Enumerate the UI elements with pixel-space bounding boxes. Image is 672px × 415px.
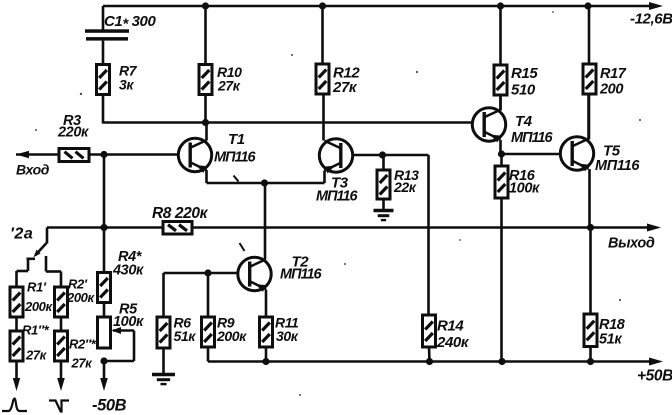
resistor R3 <box>59 149 89 162</box>
label -12,6В <box>630 11 672 28</box>
wire: rail to C1 <box>102 6 105 30</box>
node: rail / R11 junction <box>262 358 269 365</box>
svg-text:51к: 51к <box>599 332 622 348</box>
wire R2p to R2s <box>60 317 63 331</box>
label R15 510 <box>511 65 538 99</box>
node: rail / R14 junction <box>426 358 433 365</box>
wire: R12 to T3 collector (crossover) <box>322 94 325 141</box>
node: T2 base / R9 junction <box>204 269 211 276</box>
resistor R12 <box>316 64 329 94</box>
wire: rail to R15 <box>499 6 502 65</box>
label T1 МП116 <box>214 131 257 166</box>
svg-text:МП116: МП116 <box>214 150 257 166</box>
resistor R9 <box>202 273 215 362</box>
svg-text:3к: 3к <box>119 77 134 93</box>
wire: bus node down to R4 <box>103 228 106 273</box>
arrow below R2s <box>57 361 65 391</box>
svg-text:′2а: ′2а <box>10 226 33 243</box>
potentiometer R5 <box>98 317 111 348</box>
svg-text:51к: 51к <box>174 328 197 344</box>
svg-text:200к: 200к <box>24 299 53 314</box>
label R14 240к <box>436 318 470 352</box>
resistor R2s <box>55 331 68 361</box>
label R9 200к <box>216 315 247 345</box>
label R18 51к <box>599 317 626 348</box>
transistor T2 <box>238 257 271 292</box>
svg-text:Т1: Т1 <box>228 131 245 148</box>
node: T3 base / R13 junction <box>379 151 386 158</box>
wire: rail to R17 <box>588 6 591 64</box>
wire: T4 emitter to T5 base <box>502 153 560 156</box>
switch contact R2 <box>46 256 61 287</box>
ground below R6 <box>152 375 175 385</box>
resistor R8 <box>163 222 192 235</box>
label T2 МП116 <box>280 254 323 283</box>
label -50В <box>92 397 127 415</box>
svg-text:27к: 27к <box>25 348 48 363</box>
wire: R17 to T5 collector <box>588 94 591 140</box>
svg-text:-12,6В: -12,6В <box>630 11 672 28</box>
svg-text:200к: 200к <box>66 290 95 305</box>
wire: R10 to junction <box>204 95 207 123</box>
node: bus / T5 emitter junction (output) <box>587 224 594 231</box>
node: emitters / T2 collector junction <box>261 179 268 186</box>
wire: T4 emitter down <box>499 140 502 154</box>
svg-text:R14: R14 <box>437 318 464 335</box>
label R1prime 200к <box>24 280 53 315</box>
label R1sec 27к <box>22 323 50 363</box>
wire: T1 collector up <box>205 123 208 141</box>
resistor R6 <box>157 317 170 374</box>
capacitor C1 <box>85 29 129 40</box>
transistor T1 <box>178 138 211 173</box>
transistor T4 <box>472 108 505 143</box>
svg-text:МП116: МП116 <box>280 267 323 283</box>
resistor R13 <box>377 155 390 210</box>
resistor R15 <box>494 65 507 95</box>
label 2a <box>10 226 33 243</box>
svg-text:R8 220к: R8 220к <box>152 205 209 222</box>
wire: R16 down through bus to +50V rail <box>500 198 503 362</box>
svg-text:430к: 430к <box>112 263 144 279</box>
svg-text:27к: 27к <box>71 356 94 371</box>
label R11 30к <box>275 315 299 345</box>
svg-text:R1′: R1′ <box>27 280 47 295</box>
resistor R4 <box>98 273 111 303</box>
label R5 100к <box>113 302 144 331</box>
node: R10 / T1 collector junction <box>202 119 209 126</box>
sawtooth waveform symbol <box>2 399 27 412</box>
wire: bus corner down to switch <box>46 228 49 244</box>
label R2prime 200к <box>66 277 95 306</box>
transistor T5 <box>560 137 593 172</box>
wire: C1 to R7 <box>102 41 105 65</box>
resistor R7 <box>97 65 110 95</box>
svg-text:Т5: Т5 <box>603 143 621 160</box>
wire: R3 node down to bus node <box>103 155 106 228</box>
stray tick near T1 <box>234 176 239 182</box>
svg-text:27к: 27к <box>332 79 358 96</box>
label R16 100к <box>509 168 540 197</box>
svg-text:+50В: +50В <box>637 368 672 385</box>
svg-text:200к: 200к <box>216 328 247 344</box>
pulse waveform symbol <box>49 401 69 412</box>
feedback / output bus wire (R8 line to Выход) <box>47 224 661 232</box>
transistor T3 (mirrored) <box>319 139 352 174</box>
label T4 МП116 <box>511 113 554 146</box>
svg-text:200: 200 <box>599 82 623 98</box>
svg-text:Т4: Т4 <box>515 113 533 130</box>
top supply rail -12.6V <box>103 2 663 10</box>
resistor R16 <box>495 154 508 198</box>
node: top rail / R12 junction <box>319 2 326 9</box>
resistor R11 <box>260 317 273 362</box>
resistor R1p <box>10 287 23 317</box>
svg-text:С1* 300: С1* 300 <box>104 13 156 33</box>
resistor R14 <box>423 315 436 362</box>
svg-text:27к: 27к <box>217 78 241 94</box>
wire: input line to T1 base <box>16 151 178 158</box>
R5 wiper arm <box>104 327 134 361</box>
svg-text:МП116: МП116 <box>595 158 640 174</box>
node: rail / R16 junction <box>498 358 505 365</box>
svg-text:240к: 240к <box>436 334 470 351</box>
wire: node down through bus to R14 <box>427 155 430 315</box>
arrow to -50V <box>100 361 108 391</box>
svg-text:МП116: МП116 <box>511 130 554 146</box>
svg-text:100к: 100к <box>509 181 540 197</box>
wire: T5 collector up <box>587 94 590 139</box>
svg-text:30к: 30к <box>276 328 299 344</box>
wire: T4 collector up <box>499 95 502 111</box>
label R4* 430к <box>112 249 144 279</box>
wire: R7 to collector line <box>102 95 105 124</box>
wire: T2 emitter down <box>265 290 268 318</box>
node: top rail / R15 junction <box>497 2 504 9</box>
svg-text:Выход: Выход <box>608 236 655 252</box>
bottom supply rail +50V <box>208 358 663 366</box>
resistor R10 <box>199 65 212 95</box>
label R3 220к <box>57 113 89 141</box>
arrow below R1s <box>13 361 20 391</box>
resistor R2p <box>55 287 68 317</box>
label R10 27к <box>217 64 242 94</box>
label R7 3к <box>119 63 138 93</box>
label R2sec 27к <box>69 337 97 371</box>
node: R5 bottom / wiper <box>100 357 107 364</box>
svg-text:R1″*: R1″* <box>22 323 50 338</box>
switch 2a lever <box>34 243 47 257</box>
label R8 220к <box>152 205 209 222</box>
wire: emitter node down to T2 collector (crossover) <box>264 183 267 259</box>
switch contact R1 <box>17 259 36 287</box>
label T3 МП116 <box>316 175 359 205</box>
svg-text:R2″*: R2″* <box>69 337 97 352</box>
svg-text:510: 510 <box>511 82 536 99</box>
label Выход <box>608 236 655 252</box>
node: T4 emitter / R16 / T5 base <box>498 150 505 157</box>
svg-text:R17: R17 <box>600 66 627 82</box>
label R13 22к <box>393 167 419 195</box>
resistor R17 <box>583 64 596 94</box>
wire: R15 to T4 collector <box>499 95 502 110</box>
wire: base line down to R6 <box>162 273 165 317</box>
wire: T5 emitter down to output <box>588 169 591 228</box>
node: R3 / divider junction <box>100 151 107 158</box>
wire: R4 to R5 <box>103 303 106 318</box>
wire: T3 emitter down <box>323 171 326 184</box>
wire: rail to R12 <box>321 6 324 64</box>
wire: T1 emitter down <box>205 170 208 183</box>
wire: emitter link T1-T3 <box>207 182 325 185</box>
label R6 51к <box>174 315 197 345</box>
svg-text:100к: 100к <box>113 314 144 330</box>
label C1* 300 <box>104 13 156 33</box>
resistor R1s <box>10 331 23 361</box>
svg-text:-50В: -50В <box>92 397 127 415</box>
label Вход <box>16 162 50 178</box>
stray tick near T2 <box>240 243 245 251</box>
label R17 200 <box>599 66 627 98</box>
wire: rail to R10 <box>204 6 207 65</box>
svg-text:Вход: Вход <box>16 162 50 178</box>
node: rail / R18 junction <box>587 358 594 365</box>
svg-text:R15: R15 <box>511 65 538 82</box>
node: top rail / R17 junction <box>584 2 591 9</box>
wire R1p to R1s <box>15 317 18 331</box>
node: top rail / R10 junction <box>202 2 209 9</box>
wire: T3 base to R13/R14 node <box>354 154 429 157</box>
ground below R13 <box>374 211 394 221</box>
svg-text:МП116: МП116 <box>316 189 359 205</box>
label R12 27к <box>332 65 360 97</box>
label +50В <box>637 368 672 385</box>
svg-text:220к: 220к <box>57 125 89 141</box>
resistor R18 <box>584 228 597 362</box>
label T5 МП116 <box>595 143 640 175</box>
wire: T2 base line <box>164 272 238 275</box>
node: bus / input divider junction <box>100 224 107 231</box>
svg-text:22к: 22к <box>393 179 417 195</box>
wire: T1 collector line to T4 base <box>103 121 472 124</box>
